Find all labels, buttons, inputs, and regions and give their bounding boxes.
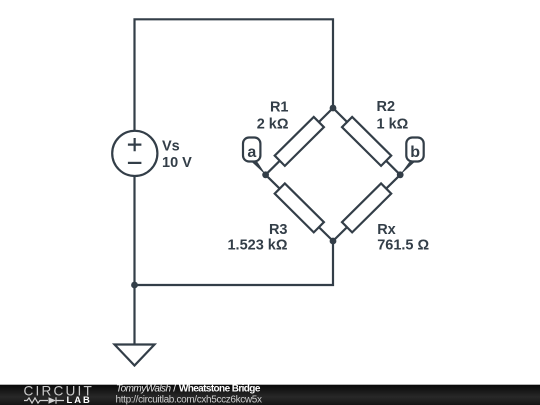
wire bridge edge top-right xyxy=(333,108,400,175)
svg-text:R1: R1 xyxy=(270,100,289,116)
junction dot ground tap xyxy=(131,282,138,289)
resistor Rx body xyxy=(342,183,391,232)
svg-text:Vs: Vs xyxy=(162,139,180,155)
junction dot right node (b) xyxy=(397,171,404,178)
wire ground stem xyxy=(133,285,135,345)
junction dot top node xyxy=(330,105,337,112)
svg-text:b: b xyxy=(410,144,420,161)
node a flag xyxy=(243,138,266,176)
logo resistor zigzag and diode glyph xyxy=(24,397,64,404)
resistor R1 body xyxy=(275,117,324,166)
svg-text:R2: R2 xyxy=(377,99,396,115)
wire bridge edge bottom-right xyxy=(333,175,400,241)
wire bridge edge left-top xyxy=(266,108,333,175)
junction dot bottom node xyxy=(330,238,337,245)
ground xyxy=(115,345,155,366)
svg-text:2 kΩ: 2 kΩ xyxy=(257,117,289,133)
resistor R3 body xyxy=(275,183,324,232)
svg-text:TommyWalsh / Wheatstone Bridge: TommyWalsh / Wheatstone Bridge xyxy=(116,384,261,395)
svg-text:1 kΩ: 1 kΩ xyxy=(377,116,409,132)
node b flag xyxy=(399,138,423,176)
svg-text:1.523 kΩ: 1.523 kΩ xyxy=(227,238,287,254)
resistor R2 body xyxy=(342,117,391,166)
wire bottom loop: source bottom to bridge bottom node xyxy=(135,176,334,285)
svg-text:Rx: Rx xyxy=(377,222,396,238)
voltage source Vs xyxy=(112,131,157,176)
svg-text:761.5 Ω: 761.5 Ω xyxy=(377,238,429,254)
wire bridge edge left-bottom xyxy=(266,175,333,241)
svg-text:10 V: 10 V xyxy=(162,155,192,171)
svg-text:http://circuitlab.com/cxh5ccz6: http://circuitlab.com/cxh5ccz6kcw5x xyxy=(116,394,262,405)
voltage source plus sign xyxy=(128,138,141,151)
voltage source minus sign xyxy=(128,162,141,164)
svg-text:R3: R3 xyxy=(269,222,288,238)
svg-text:LAB: LAB xyxy=(67,394,92,405)
svg-text:a: a xyxy=(247,144,256,161)
wire top loop: source top to bridge top node xyxy=(135,19,334,131)
junction dot left node (a) xyxy=(262,171,269,178)
